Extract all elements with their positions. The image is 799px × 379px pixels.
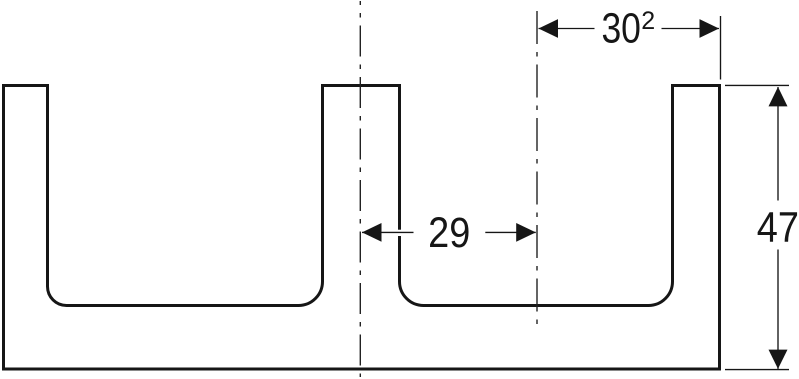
svg-text:2: 2 [641,7,655,35]
svg-text:29: 29 [428,209,470,257]
svg-text:47: 47 [757,203,799,251]
svg-text:30: 30 [601,4,641,52]
